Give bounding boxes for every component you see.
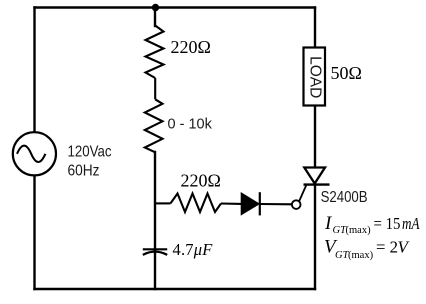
svg-text:4.7μF: 4.7μF xyxy=(173,240,214,259)
svg-text:220Ω: 220Ω xyxy=(171,37,211,57)
svg-text:= 15: = 15 xyxy=(374,214,401,233)
svg-text:0 - 10k: 0 - 10k xyxy=(168,117,213,133)
svg-text:50Ω: 50Ω xyxy=(331,63,362,83)
svg-text:LOAD: LOAD xyxy=(306,56,323,98)
svg-text:60Hz: 60Hz xyxy=(68,162,100,179)
svg-text:mA: mA xyxy=(402,214,420,233)
svg-text:(max): (max) xyxy=(348,250,374,261)
svg-text:(max): (max) xyxy=(346,225,372,236)
svg-text:S2400B: S2400B xyxy=(321,189,368,206)
svg-text:120Vac: 120Vac xyxy=(68,144,112,161)
svg-text:220Ω: 220Ω xyxy=(181,170,221,190)
svg-text:= 2: = 2 xyxy=(376,238,398,257)
svg-text:V: V xyxy=(398,238,411,257)
